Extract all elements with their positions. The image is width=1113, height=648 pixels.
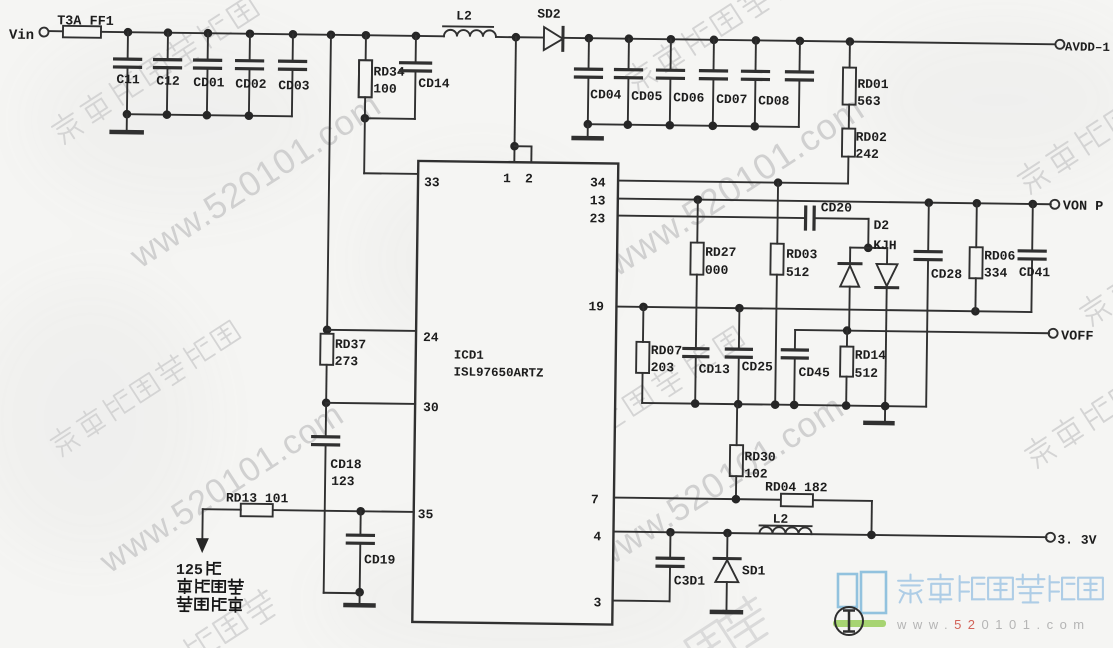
inductor L2 (top) <box>443 8 496 37</box>
junction dots on top rail <box>124 28 855 46</box>
terminal VON P <box>1050 199 1103 215</box>
svg-text:4: 4 <box>593 529 601 544</box>
wire pin 7 line <box>613 493 871 535</box>
ground bottom-left <box>345 603 373 608</box>
logo title hanzi <box>898 575 1103 603</box>
capacitor CD01 <box>193 33 225 115</box>
watermark hanzi mid-left <box>47 318 242 457</box>
svg-text:RD14: RD14 <box>855 348 887 363</box>
ground under SD1 <box>712 610 741 615</box>
watermark hanzi top-left <box>49 0 261 145</box>
wire top rail to pins 1 and 2 <box>510 37 533 162</box>
svg-text:RD01: RD01 <box>857 77 889 92</box>
svg-text:203: 203 <box>651 360 675 375</box>
resistor RD34 100 <box>358 35 405 119</box>
wire pin 23 to CD20 <box>618 216 804 218</box>
wire top rail to pin 24 <box>323 35 420 335</box>
terminal AVDD-1 <box>1055 40 1110 55</box>
svg-text:ICD1: ICD1 <box>454 348 484 362</box>
svg-text:3: 3 <box>593 595 601 610</box>
wire pin 19 line <box>616 302 1031 316</box>
svg-text:C12: C12 <box>156 74 180 89</box>
ground under CD04 bus <box>574 124 602 138</box>
svg-text:CD14: CD14 <box>418 76 450 91</box>
wire bottom bus (pin-19 area ground net) <box>642 399 926 411</box>
capacitor CD03 <box>278 34 310 116</box>
capacitor C3D1 <box>657 532 706 602</box>
svg-text:AVDD–1: AVDD–1 <box>1065 40 1110 55</box>
svg-text:RD27: RD27 <box>705 245 736 260</box>
svg-text:24: 24 <box>423 330 439 345</box>
svg-text:ISL97650ARTZ: ISL97650ARTZ <box>453 365 543 380</box>
svg-text:CD03: CD03 <box>278 78 310 93</box>
wire pin 13 VON line <box>618 194 1051 208</box>
wire RD34-CD14 node to pin 33 <box>360 114 419 174</box>
watermark hanzi bottom-right <box>1022 377 1113 469</box>
fuse FF1 T3A <box>48 14 114 38</box>
svg-text:1: 1 <box>503 171 511 186</box>
svg-text:CD28: CD28 <box>931 267 963 282</box>
watermark hanzi bottom-center-corner <box>682 592 775 648</box>
wire pin 3 to C3D1 <box>613 600 670 603</box>
svg-text:34: 34 <box>590 175 606 190</box>
resistor RD04 182 <box>765 480 828 507</box>
terminal VOFF <box>1048 329 1093 345</box>
svg-text:3. 3V: 3. 3V <box>1057 532 1096 548</box>
capacitor CD08 <box>742 40 791 127</box>
capacitor C11 <box>114 32 141 114</box>
svg-text:35: 35 <box>418 507 434 522</box>
svg-text:RD04 182: RD04 182 <box>765 480 828 496</box>
capacitor CD14 <box>400 36 450 120</box>
resistor RD30 102 <box>729 404 776 500</box>
wire pin 30 <box>322 398 415 408</box>
svg-text:563: 563 <box>857 94 881 109</box>
capacitor CD19 <box>347 511 396 593</box>
terminal Vin <box>9 27 49 44</box>
capacitor CD04 <box>575 38 623 125</box>
svg-text:CD01: CD01 <box>193 75 225 90</box>
ground under C11 bus <box>112 114 142 132</box>
watermark hanzi center-bottom <box>530 324 746 477</box>
svg-text:30: 30 <box>423 400 439 415</box>
svg-text:D2: D2 <box>873 218 889 233</box>
wire capacitor bus right <box>583 120 798 131</box>
svg-text:RD37: RD37 <box>335 337 366 352</box>
svg-text:RD13 101: RD13 101 <box>226 490 289 506</box>
svg-text:CD02: CD02 <box>235 77 267 92</box>
capacitor CD02 <box>235 34 267 116</box>
diode D2 KJH (left zener) <box>838 217 897 331</box>
resistor RD14 512 <box>840 331 887 407</box>
terminal 3.3V <box>1046 532 1097 548</box>
logo green bar <box>833 620 886 627</box>
svg-text:T3A FF1: T3A FF1 <box>57 14 114 30</box>
watermark hanzi right-edge-top <box>1014 100 1113 195</box>
wire pin 34 to RD02 <box>618 176 848 188</box>
watermark hanzi right-edge-mid <box>1077 272 1113 327</box>
label 125-pin timing signal processing chip <box>175 561 243 611</box>
wire pin 35 <box>273 506 414 516</box>
svg-text:C3D1: C3D1 <box>674 573 706 588</box>
arrow to timing chip <box>196 538 209 553</box>
svg-text:L2: L2 <box>773 512 789 527</box>
resistor RD06 334 <box>969 203 1016 312</box>
logo circled 1 <box>835 607 863 635</box>
svg-text:33: 33 <box>424 175 440 190</box>
svg-text:KJH: KJH <box>873 238 897 253</box>
svg-text:000: 000 <box>705 263 729 278</box>
svg-text:VON P: VON P <box>1063 199 1104 215</box>
svg-text:123: 123 <box>331 474 355 489</box>
wire VOFF line <box>795 326 1049 338</box>
svg-text:CD41: CD41 <box>1019 265 1051 280</box>
diode SD1 <box>713 533 766 612</box>
svg-text:CD06: CD06 <box>673 90 705 105</box>
capacitor CD05 <box>615 39 664 126</box>
capacitor CD41 <box>1018 204 1051 312</box>
resistor RD13 101 <box>226 490 289 516</box>
svg-text:512: 512 <box>854 366 878 381</box>
svg-text:2: 2 <box>525 171 533 186</box>
svg-text:CD18: CD18 <box>330 457 362 472</box>
inductor L2 (bottom) <box>759 511 811 534</box>
resistor RD37 273 <box>320 334 367 404</box>
wire CD20 to D2 node <box>815 218 887 252</box>
svg-text:242: 242 <box>855 147 879 162</box>
wire pin 4 line to 3.3V <box>613 527 1046 541</box>
svg-text:273: 273 <box>335 354 359 369</box>
capacitor CD07 <box>700 40 748 127</box>
svg-text:CD05: CD05 <box>631 89 663 104</box>
svg-text:RD30: RD30 <box>744 449 776 464</box>
resistor RD07 203 <box>636 307 683 404</box>
svg-text:CD25: CD25 <box>742 359 774 374</box>
watermark hanzi top-center <box>623 0 830 94</box>
resistor RD02 242 <box>842 129 888 185</box>
svg-text:100: 100 <box>373 81 397 96</box>
capacitor CD18 123 <box>311 403 363 594</box>
svg-text:RD02: RD02 <box>856 130 888 145</box>
resistor RD01 563 <box>842 42 889 130</box>
capacitor C12 <box>154 33 181 115</box>
wire top rail Vin to AVDD-1 <box>101 32 1055 44</box>
svg-text:19: 19 <box>588 299 604 314</box>
svg-text:CD08: CD08 <box>758 93 790 108</box>
svg-text:Vin: Vin <box>9 28 34 44</box>
resistor RD03 512 <box>769 183 819 406</box>
svg-text:www.520101.com: www.520101.com <box>896 617 1091 632</box>
svg-text:13: 13 <box>590 193 606 208</box>
svg-text:334: 334 <box>984 265 1008 280</box>
watermark hanzi bottom-left-corner <box>183 587 280 648</box>
wire capacitor bus left <box>123 110 292 121</box>
svg-text:RD07: RD07 <box>651 343 682 358</box>
ground under D2 right <box>865 421 892 426</box>
op-amp U1 IC ICD1 ISL97650ARTZ <box>412 161 618 625</box>
svg-text:CD13: CD13 <box>699 362 731 377</box>
capacitor CD06 <box>657 39 706 126</box>
diode SD2 <box>537 7 564 51</box>
svg-text:L2: L2 <box>456 8 472 23</box>
svg-text:CD04: CD04 <box>590 87 622 102</box>
svg-text:CD20: CD20 <box>821 200 853 215</box>
svg-text:C11: C11 <box>116 72 140 87</box>
svg-text:SD2: SD2 <box>537 7 561 22</box>
capacitor CD25 <box>726 308 774 405</box>
svg-text:RD06: RD06 <box>984 248 1016 263</box>
capacitor CD13 <box>683 348 730 404</box>
capacitor CD28 <box>913 202 963 407</box>
capacitor CD20 <box>805 200 852 230</box>
resistor RD27 000 <box>689 200 737 350</box>
wire ground bus bottom-left <box>324 587 365 605</box>
svg-text:RD03: RD03 <box>786 247 818 262</box>
capacitor unlabeled (6th in CD04 bank) <box>786 41 813 127</box>
svg-text:SD1: SD1 <box>742 563 766 578</box>
wire RD13 to arrow <box>202 509 240 540</box>
diode D2 (right) <box>874 248 898 423</box>
svg-text:CD07: CD07 <box>716 92 747 107</box>
svg-text:CD45: CD45 <box>798 365 830 380</box>
logo book icon <box>838 572 886 613</box>
svg-text:7: 7 <box>591 492 599 507</box>
capacitor CD45 <box>782 330 831 406</box>
svg-text:125: 125 <box>176 562 203 579</box>
svg-text:23: 23 <box>589 211 605 226</box>
svg-text:CD19: CD19 <box>364 552 396 567</box>
svg-text:VOFF: VOFF <box>1061 329 1094 344</box>
svg-text:512: 512 <box>786 265 810 280</box>
